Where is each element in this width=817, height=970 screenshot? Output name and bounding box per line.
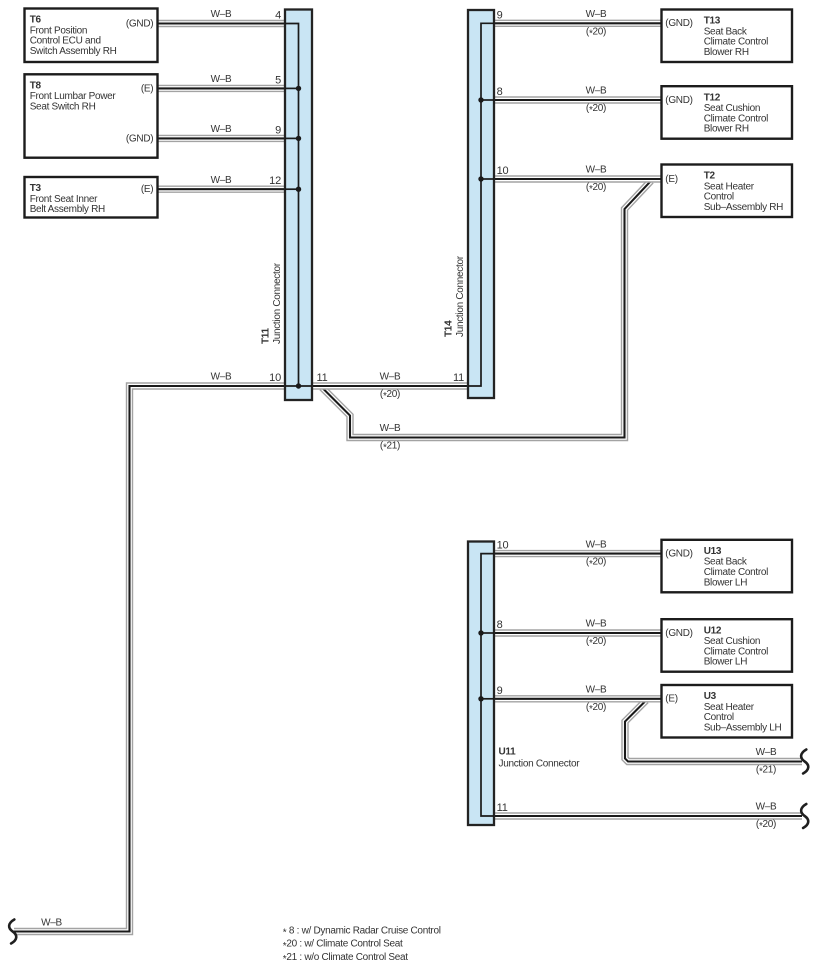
svg-text:Control ECU and: Control ECU and [30, 36, 101, 47]
svg-text:(E): (E) [141, 184, 153, 195]
junction connector U11 [468, 542, 494, 826]
U11 internal bus pin 10 to pin 11 [481, 554, 494, 816]
svg-text:11: 11 [497, 802, 508, 814]
svg-text:Junction Connector: Junction Connector [272, 262, 283, 344]
svg-text:Climate Control: Climate Control [704, 113, 768, 124]
U11 pin 9 stub [481, 698, 494, 700]
svg-text:U11: U11 [499, 747, 517, 758]
node U11 pin 9 junction [478, 696, 483, 701]
svg-text:(*20): (*20) [756, 819, 776, 832]
svg-text:Seat Switch RH: Seat Switch RH [30, 101, 96, 112]
svg-text:Seat Cushion: Seat Cushion [704, 103, 760, 114]
wire W-B from T11 pin 10 to off-page break bottom left [14, 386, 285, 932]
svg-text:W–B: W–B [586, 685, 607, 696]
svg-text:Junction Connector: Junction Connector [499, 758, 581, 769]
node T11 pin 12 junction [296, 187, 301, 192]
svg-text:T3: T3 [30, 183, 42, 194]
svg-text:W–B: W–B [211, 9, 232, 20]
svg-text:4: 4 [275, 10, 281, 22]
svg-text:Seat Heater: Seat Heater [704, 181, 755, 192]
svg-text:W–B: W–B [380, 423, 401, 434]
label T11 Junction Connector (rotated) [261, 262, 284, 344]
component U13 Seat Back Climate Control Blower LH [662, 540, 793, 593]
node T14 pin 8 junction [478, 97, 483, 102]
svg-text:(*20): (*20) [586, 557, 606, 570]
svg-text:(GND): (GND) [126, 18, 153, 29]
svg-text:10: 10 [497, 165, 509, 177]
wire W-B (*20) U11 pin 8 to U12 (GND) [494, 629, 662, 636]
off-page break right (*20) [801, 804, 808, 828]
svg-text:W–B: W–B [756, 747, 777, 758]
svg-text:9: 9 [275, 124, 281, 136]
svg-text:T14: T14 [444, 320, 455, 337]
svg-text:(*20): (*20) [380, 389, 400, 402]
svg-text:W–B: W–B [756, 802, 777, 813]
T14 pin 10 stub [481, 178, 494, 180]
svg-text:Sub–Assembly RH: Sub–Assembly RH [704, 202, 783, 213]
svg-text:Front Lumbar Power: Front Lumbar Power [30, 91, 117, 102]
svg-text:Climate Control: Climate Control [704, 37, 768, 48]
T11 pin 10-11 through wire [285, 385, 312, 387]
wire W-B (*20) T14 pin 10 to T2 (E) [494, 175, 662, 182]
svg-text:*21 : w/o Climate Control Seat: *21 : w/o Climate Control Seat [283, 952, 408, 965]
junction connector T14 [468, 10, 494, 398]
svg-text:Junction Connector: Junction Connector [455, 255, 466, 337]
svg-text:W–B: W–B [586, 539, 607, 550]
svg-text:11: 11 [317, 372, 328, 384]
svg-text:Blower LH: Blower LH [704, 657, 748, 668]
svg-text:(GND): (GND) [665, 628, 692, 639]
svg-text:Front Position: Front Position [30, 25, 87, 36]
svg-text:W–B: W–B [41, 918, 62, 929]
T11 internal bus from pin 4 [285, 24, 299, 387]
svg-text:U12: U12 [704, 625, 722, 636]
svg-text:(*21): (*21) [380, 441, 400, 454]
wire W-B (*20) T14 pin 9 to T13 (GND) [494, 20, 662, 27]
svg-text:Seat Back: Seat Back [704, 557, 748, 568]
svg-text:Belt Assembly RH: Belt Assembly RH [30, 204, 105, 215]
svg-text:W–B: W–B [211, 372, 232, 383]
wire W-B (*20) T14 pin 8 to T12 (GND) [494, 96, 662, 103]
wire W-B (*20) U11 pin 10 to U13 (GND) [494, 550, 662, 557]
svg-text:*20 : w/ Climate Control Seat: *20 : w/ Climate Control Seat [283, 939, 403, 952]
svg-text:W–B: W–B [211, 74, 232, 85]
svg-text:W–B: W–B [586, 9, 607, 20]
svg-text:Seat Heater: Seat Heater [704, 702, 755, 713]
off-page break bottom left [9, 920, 16, 944]
svg-text:(E): (E) [141, 83, 153, 94]
svg-text:W–B: W–B [380, 372, 401, 383]
svg-text:Blower LH: Blower LH [704, 577, 748, 588]
node U11 pin 8 junction [478, 630, 483, 635]
svg-text:5: 5 [275, 74, 281, 86]
component T3 Front Seat Inner Belt Assembly RH [25, 177, 158, 218]
svg-text:(GND): (GND) [126, 133, 153, 144]
component T12 Seat Cushion Climate Control Blower RH [662, 86, 793, 139]
svg-text:(*20): (*20) [586, 103, 606, 116]
svg-text:10: 10 [497, 540, 509, 552]
svg-text:Control: Control [704, 192, 734, 203]
component T6 Front Position Control ECU and Switch Assembly RH [25, 9, 158, 63]
svg-text:T2: T2 [704, 171, 716, 182]
svg-text:Seat Back: Seat Back [704, 26, 748, 37]
svg-text:* 8 : w/ Dynamic Radar Cruise: * 8 : w/ Dynamic Radar Cruise Control [283, 925, 441, 938]
off-page break right (*21) [801, 750, 808, 774]
svg-text:Seat Cushion: Seat Cushion [704, 636, 760, 647]
wire W-B T8 (GND) to T11 pin 9 [158, 135, 286, 142]
svg-text:(GND): (GND) [665, 18, 692, 29]
svg-text:(*20): (*20) [586, 702, 606, 715]
svg-text:Control: Control [704, 712, 734, 723]
svg-text:9: 9 [497, 9, 503, 21]
svg-text:U13: U13 [704, 546, 722, 557]
svg-text:(GND): (GND) [665, 95, 692, 106]
component T8 Front Lumbar Power Seat Switch RH [25, 74, 158, 157]
wire W-B (*21) detour from T11 pin 11 to T2 (E) [322, 181, 651, 438]
node T14 pin 10 junction [478, 176, 483, 181]
svg-text:U3: U3 [704, 691, 717, 702]
wire W-B (*20) U11 pin 11 to off-page break [494, 812, 802, 819]
T11 pin 12 stub [285, 188, 299, 190]
svg-text:11: 11 [453, 372, 464, 384]
node T11 pin 10 junction [296, 383, 301, 388]
label T14 Junction Connector (rotated) [444, 255, 467, 337]
wire W-B T3 (E) to T11 pin 12 [158, 185, 286, 192]
wire W-B (*20) T11 pin 11 to T14 pin 11 [312, 382, 468, 389]
node T11 pin 9 junction [296, 136, 301, 141]
svg-text:T12: T12 [704, 92, 721, 103]
component U12 Seat Cushion Climate Control Blower LH [662, 619, 793, 672]
svg-text:(*20): (*20) [586, 26, 606, 39]
svg-text:8: 8 [497, 619, 503, 631]
U11 pin 8 stub [481, 632, 494, 634]
svg-text:Climate Control: Climate Control [704, 646, 768, 657]
svg-text:W–B: W–B [586, 165, 607, 176]
svg-text:Front Seat Inner: Front Seat Inner [30, 194, 98, 205]
svg-text:Sub–Assembly LH: Sub–Assembly LH [704, 723, 782, 734]
svg-text:12: 12 [269, 175, 281, 187]
svg-text:Climate Control: Climate Control [704, 567, 768, 578]
svg-text:T11: T11 [261, 327, 272, 344]
node T11 pin 5 junction [296, 86, 301, 91]
svg-text:Blower RH: Blower RH [704, 124, 749, 135]
wire W-B (*20) U11 pin 9 to U3 (E) [494, 695, 662, 702]
svg-text:10: 10 [269, 372, 281, 384]
component U3 Seat Heater Control Sub-Assembly LH [662, 685, 793, 738]
svg-text:W–B: W–B [211, 175, 232, 186]
svg-text:(E): (E) [665, 174, 677, 185]
svg-text:(*20): (*20) [586, 636, 606, 649]
component T13 Seat Back Climate Control Blower RH [662, 10, 793, 63]
svg-text:T8: T8 [30, 81, 42, 92]
svg-text:9: 9 [497, 685, 503, 697]
component T2 Seat Heater Control Sub-Assembly RH [662, 165, 793, 218]
T14 internal bus pin 9 to pin 11 [468, 23, 494, 386]
svg-text:8: 8 [497, 86, 503, 98]
svg-text:W–B: W–B [211, 124, 232, 135]
svg-text:(*21): (*21) [756, 765, 776, 778]
T14 pin 8 stub [481, 99, 494, 101]
svg-text:W–B: W–B [586, 619, 607, 630]
svg-text:T6: T6 [30, 15, 42, 26]
svg-text:Blower RH: Blower RH [704, 47, 749, 58]
wire W-B T6 (GND) to T11 pin 4 [158, 20, 286, 27]
junction connector T11 [285, 10, 312, 401]
T11 pin 5 stub [285, 87, 299, 89]
T11 pin 9 stub [285, 137, 299, 139]
svg-text:Switch Assembly RH: Switch Assembly RH [30, 46, 117, 57]
svg-text:(*20): (*20) [586, 182, 606, 195]
wire W-B T8 (E) to T11 pin 5 [158, 85, 286, 92]
svg-text:T13: T13 [704, 16, 721, 27]
svg-text:W–B: W–B [586, 86, 607, 97]
svg-text:(GND): (GND) [665, 549, 692, 560]
svg-text:(E): (E) [665, 694, 677, 705]
wire W-B (*21) from U3 (E) to off-page break [625, 701, 802, 762]
